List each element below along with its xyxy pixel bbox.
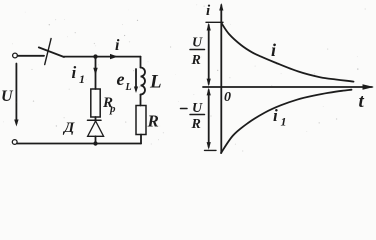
svg-text:i: i	[72, 63, 77, 82]
svg-text:U: U	[192, 36, 203, 51]
svg-text:i: i	[271, 40, 276, 60]
svg-text:Д: Д	[62, 120, 75, 136]
svg-text:0: 0	[224, 90, 231, 105]
svg-text:1: 1	[281, 115, 287, 129]
svg-text:i: i	[115, 37, 120, 54]
svg-text:R: R	[191, 53, 201, 68]
svg-text:U: U	[1, 88, 14, 105]
svg-text:L: L	[125, 82, 132, 93]
svg-text:L: L	[149, 72, 162, 93]
svg-text:R: R	[147, 112, 159, 131]
svg-text:R: R	[191, 117, 201, 132]
svg-text:t: t	[359, 91, 365, 112]
svg-text:i: i	[273, 106, 278, 125]
svg-text:р: р	[109, 103, 116, 115]
svg-text:e: e	[117, 69, 125, 89]
svg-text:1: 1	[79, 72, 85, 86]
svg-text:U: U	[192, 101, 203, 116]
